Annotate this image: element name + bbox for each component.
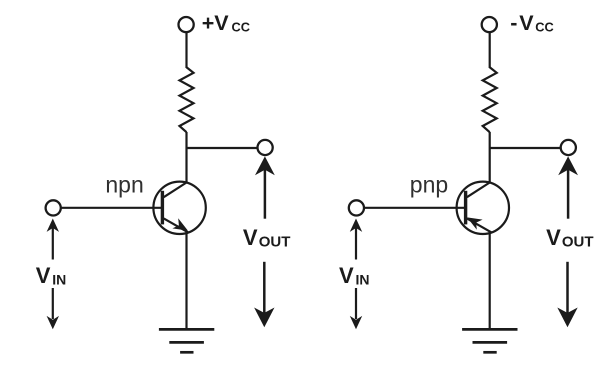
svg-text:CC: CC <box>535 19 553 34</box>
svg-text:V: V <box>519 11 534 35</box>
terminal VIN (right) <box>349 200 364 215</box>
wire VCC terminal to R2 <box>489 33 491 68</box>
transistor Q1 (npn) <box>153 182 205 234</box>
arrow VOUT up (right) <box>558 156 578 218</box>
svg-text:V: V <box>546 225 561 250</box>
terminal -VCC (right) <box>482 17 497 32</box>
svg-text:OUT: OUT <box>259 234 291 251</box>
arrow VIN up (left) <box>47 219 59 260</box>
svg-text:V: V <box>36 263 51 288</box>
terminal VIN (left) <box>46 200 61 215</box>
label -VCC <box>510 11 553 35</box>
terminal VOUT (left) <box>258 140 273 155</box>
svg-text:IN: IN <box>52 271 66 287</box>
wire collector node to VOUT terminal <box>187 147 259 149</box>
label VIN (right) <box>339 263 370 288</box>
arrow VIN up (right) <box>350 219 362 260</box>
resistor R2 <box>483 67 497 132</box>
arrow VIN down (left) <box>47 288 59 329</box>
svg-text:OUT: OUT <box>562 234 594 251</box>
wire R1 to collector node <box>185 132 187 183</box>
arrow VIN down (right) <box>350 288 362 329</box>
label VOUT (left) <box>243 225 290 251</box>
svg-text:-: - <box>510 11 517 35</box>
svg-text:+V: +V <box>202 11 230 35</box>
wire VIN terminal to base of Q2 <box>364 207 466 209</box>
wire R2 to collector node <box>489 132 491 183</box>
svg-text:CC: CC <box>232 19 250 34</box>
label VOUT (right) <box>546 225 593 251</box>
resistor R1 <box>180 67 194 132</box>
terminal +VCC (left) <box>179 17 194 32</box>
arrow VOUT down (left) <box>254 262 274 327</box>
svg-text:npn: npn <box>105 172 143 198</box>
arrow VOUT down (right) <box>557 262 577 327</box>
svg-text:V: V <box>243 225 258 250</box>
terminal VOUT (right) <box>561 140 576 155</box>
svg-text:IN: IN <box>356 271 370 287</box>
transistor Q2 (pnp) <box>457 182 509 234</box>
wire emitter of Q1 to ground <box>185 232 187 330</box>
wire VCC terminal to R1 <box>185 33 187 68</box>
label +VCC <box>202 11 250 35</box>
ground (right) <box>462 329 517 352</box>
svg-text:pnp: pnp <box>410 172 448 198</box>
wire emitter of Q2 to ground <box>489 232 491 330</box>
wire VIN terminal to base of Q1 <box>61 207 163 209</box>
ground (left) <box>159 329 214 352</box>
wire collector node to VOUT terminal <box>490 147 562 149</box>
label VIN (left) <box>36 263 67 288</box>
svg-text:V: V <box>339 263 354 288</box>
arrow VOUT up (left) <box>255 156 275 218</box>
